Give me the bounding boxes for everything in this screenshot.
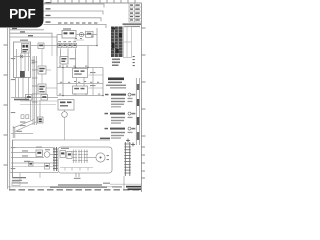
legend ring 2 [128,112,131,115]
PDF badge [0,0,44,28]
parts list footer rows [112,59,120,67]
wire CB up [41,49,43,67]
breaker CB1 marks [39,68,44,72]
breaker CB1 [38,66,46,74]
lamp DS1 dot [100,157,102,159]
junction dots [62,45,104,97]
wire slant 1 [13,120,34,129]
disclaimer text line 2 [50,186,107,187]
resistor R2 [63,43,67,47]
wire between modules 2 [83,78,85,87]
plus mark 2 [131,143,135,147]
legend B heading [110,113,135,115]
wire row F [12,139,110,141]
module A2 [73,69,88,78]
terminal strip TB1 [53,147,58,171]
plus mark 1 [126,139,130,143]
resistor R1 mark [59,45,61,47]
resistor R1 [58,43,62,47]
wire col center [92,68,94,96]
ruler ticks left [4,45,8,165]
title text FIG number [128,188,142,190]
terminal t4 [21,115,24,119]
border bottom [9,189,142,191]
ruler ticks right [142,28,146,178]
border left [8,28,10,189]
bus wire L4 [44,24,107,28]
margin label a [11,58,16,59]
wire row G3 [11,162,53,164]
wire col B2 [102,68,104,96]
wire row H [10,172,58,174]
legend C row 1 [111,132,133,133]
harness internal wire [60,167,93,169]
wire label d2 [20,125,26,126]
title text TM number [126,186,141,188]
wire label g3 [24,161,30,162]
wire Q2 collector [64,110,66,112]
wire CB stub 1 [46,69,51,71]
resistor R3 [68,43,72,47]
relay K1 outline [14,42,31,78]
relay K1 label [20,40,28,41]
stub label [74,178,81,179]
title block divider [123,176,125,189]
pin ladder 1 [73,150,78,164]
module A1 [60,57,68,65]
legend B row 2 [111,120,124,121]
breaker CB2 marks [39,86,44,93]
transistor Q1 [79,33,83,37]
margin label c [11,112,16,113]
resistor R4 mark [74,45,76,47]
wire U1 in [57,33,62,35]
connector bar [14,99,29,101]
harness box J1 [58,147,112,173]
module A3 marks [74,88,84,90]
net label F1 [12,28,17,29]
note text left [12,177,26,178]
legend C row 2 [111,135,124,136]
title block line [110,183,142,185]
component label t1 [36,147,42,148]
legend B row 3 [111,122,121,123]
feeder wire F3 [10,37,57,42]
svg-text:PDF: PDF [9,6,35,21]
drawing zone label strip [123,23,142,27]
capacitor C1 mark [46,165,49,167]
wire row D3 [20,104,56,106]
driver U2 [86,31,94,37]
wire between modules [76,78,78,87]
legend B row 1 [111,117,133,118]
border right [141,3,143,192]
legend ring 1 [128,93,131,96]
wire drop H2 [39,173,41,179]
pin specks top [75,33,94,39]
module A3 [73,86,88,94]
module A4 [58,100,74,111]
wire stub row [74,39,84,41]
wire CB link [41,74,43,84]
connector ladder J2 [125,142,130,176]
component label t2 [45,149,50,150]
wire label d1 [20,122,26,123]
bus wire L3 [44,18,102,22]
parts list block [111,27,123,58]
bundle label [17,131,23,132]
relay K1 cross contact [20,55,23,58]
wire drop H4 [78,173,80,177]
notes line 2 [106,85,126,86]
parts list table frame [124,27,132,58]
wire Q2 down [64,117,66,140]
resistor R2 mark [64,45,66,47]
legend C heading [110,128,135,130]
title small text [112,186,122,187]
pin specks mid [59,66,100,95]
regulator U1 [62,31,76,39]
wire row G2 [11,157,44,159]
fuse FU1 mark [39,45,43,47]
net label L4 [46,21,51,22]
wire col D2 [39,100,41,117]
connector P1 [60,151,66,158]
border top [44,2,142,4]
resistor labels [58,41,76,42]
pin ladder 2 [78,150,83,164]
lamp DS1 [96,153,105,162]
net label B1610 [100,138,110,140]
module A2 marks [74,70,84,74]
connector P1 mark [61,152,64,154]
wire row C stub [89,87,104,89]
lamp DS1 pin specks [107,155,110,160]
wire row A [31,45,97,47]
feeder wire F1 [10,29,44,31]
relay pin specks [32,60,35,64]
terminal box bottom left [12,182,20,186]
wire row D [11,97,58,99]
relay K2 [29,162,34,167]
label U1 [63,28,71,29]
wire U1 out [76,33,97,35]
capacitor C1 [45,164,50,170]
note text left 3 [12,182,28,183]
wire drops row A [57,35,88,68]
revision table entries [130,4,140,20]
notes line 3 [110,87,126,88]
breaker CB2 [38,84,46,94]
legend ring 3 [128,127,131,130]
wire label g1 [22,150,28,151]
resistor R3 mark [69,45,71,47]
wire slant 2 [15,122,36,132]
connector P2 [67,152,72,159]
module A1 marks [61,58,66,62]
wire col B1 [62,65,64,96]
net label L3 [46,15,51,16]
relay K1 coil box [22,44,30,54]
relay K2 mark [29,163,32,165]
resistor R4 [73,43,77,47]
regulator U1 marks [64,32,75,34]
wire row D2 [20,100,58,102]
switch S3 [36,150,43,157]
wire drop H3 [75,173,77,177]
wire row G4 [11,166,53,168]
fuse FU1 [38,43,44,49]
motor M1 [44,152,50,158]
wire row B stub [89,74,104,76]
cable bundle ticks [32,62,37,102]
bus tick labels [58,22,98,23]
bus wire L2 [44,11,104,15]
ruler ticks top [51,0,135,3]
relay K1 internal wires [14,49,30,78]
relay K1 coil marks [22,45,28,52]
legend A heading [111,94,135,96]
switch S2 [41,95,48,101]
wire row C [57,95,103,97]
relay K1 contact block [20,71,25,78]
legend C symbol [105,128,109,130]
wire node N1 [96,28,98,46]
connector ladder J2 rungs [124,144,131,173]
legend B symbol [105,113,109,115]
legend A row 3 [111,104,124,105]
transistor Q2 [62,112,68,118]
wire row B2 [57,83,103,85]
wire col D1 [30,100,32,120]
component label t3 [61,148,69,149]
wire row E [11,133,33,135]
terminal t5 [26,115,29,119]
wire motor link [50,154,54,156]
disclaimer text line 1 [58,184,102,185]
margin label e [11,168,16,169]
net label F3 [28,35,33,36]
pin ladder 3 [84,150,89,164]
net label L1 [46,2,51,3]
diode CR1 marks [39,118,42,122]
title strip line [8,186,112,188]
switch S2 mark [42,96,46,98]
switch S3 mark [37,152,41,154]
net label F2 [20,31,25,32]
legend A row 2 [111,101,133,102]
diode CR1 [38,117,44,123]
switch S1 mark [27,96,31,98]
connector P2 mark [68,153,71,155]
ditto marks [133,56,135,66]
note text left 2 [12,180,22,181]
pin specks B2 [60,82,99,83]
switch S1 [26,95,33,101]
legend A symbol [105,94,109,96]
legend C row 3 [111,137,121,138]
module A4 marks [60,102,72,107]
margin label d [11,147,16,148]
zone strip column [136,78,139,145]
wire CB stub 2 [46,87,57,89]
harness wire ticks [65,168,88,171]
legend A row 4 [111,106,121,107]
transistor Q1 dot [81,34,82,35]
module stack label 1 [90,72,96,73]
revision table top right [129,3,142,22]
wire drop H1 [19,173,21,181]
figure label [103,183,110,184]
wire row G1 [11,152,36,154]
wire row B [57,67,103,69]
bus wire L1 [44,4,105,8]
wire row G0 [11,147,53,149]
wire to DS1 [88,157,96,159]
feeder wire F2 [10,33,52,37]
bundle left [13,126,15,138]
driver U2 mark [87,33,92,35]
bus vertical left [12,140,14,178]
module stack label 2 [90,85,96,86]
relay output wires [16,78,29,98]
label A1 [70,58,76,59]
legend A row 1 [111,98,133,99]
cable bundle W1 [33,56,36,125]
notes heading [108,78,124,81]
wire col x52 [51,37,53,56]
wire label g2 [22,155,28,156]
notes line 1 [108,82,122,84]
wire col left loop [56,48,58,96]
margin label b [11,79,16,80]
net label L2 [46,8,51,9]
